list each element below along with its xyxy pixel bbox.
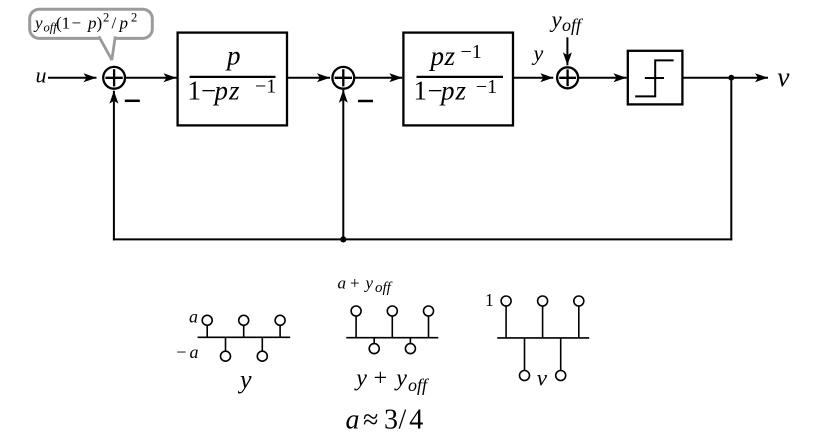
svg-text:u: u — [36, 63, 47, 88]
caption a ~ 3/4 — [346, 404, 424, 435]
up stems — [206, 325, 208, 337]
svg-text:y: y — [532, 41, 544, 66]
summing junction S3 — [557, 67, 578, 88]
svg-text:(1: (1 — [56, 13, 70, 32]
wire block2 to sum3 — [513, 77, 553, 79]
svg-text:p: p — [119, 13, 129, 32]
wire sum2 to block2 — [355, 77, 403, 79]
wire sum1 to block1 — [126, 77, 177, 79]
callout bubble — [30, 9, 153, 60]
minus sign at S1 — [125, 100, 140, 103]
svg-text:a: a — [190, 342, 199, 362]
minus sign at S2 — [358, 100, 373, 103]
svg-text:−: − — [176, 342, 186, 362]
svg-text:z: z — [228, 75, 240, 105]
svg-text:1: 1 — [414, 75, 428, 105]
svg-text:1: 1 — [188, 75, 202, 105]
svg-text:2: 2 — [103, 11, 109, 25]
svg-text:a: a — [338, 274, 347, 293]
svg-text:4: 4 — [409, 404, 423, 435]
svg-text:/: / — [399, 404, 407, 435]
quantizer block — [628, 51, 683, 105]
svg-text:+: + — [374, 365, 388, 391]
up stems — [355, 316, 357, 338]
svg-text:−1: −1 — [461, 41, 482, 63]
axis — [346, 337, 438, 339]
svg-text:2: 2 — [131, 11, 137, 25]
svg-text:−1: −1 — [476, 76, 497, 98]
summing junction S1 — [103, 67, 125, 89]
svg-text:≈: ≈ — [363, 404, 378, 435]
svg-text:y: y — [550, 7, 563, 32]
feedback branch up into S2 — [342, 90, 344, 240]
stem plot 1 (y) — [198, 315, 291, 361]
svg-text:3: 3 — [384, 404, 398, 435]
svg-text:off: off — [408, 375, 430, 395]
wire u to sum1 — [48, 77, 97, 79]
svg-text:off: off — [562, 15, 584, 35]
svg-text:/: / — [112, 13, 117, 32]
svg-text:p: p — [213, 75, 229, 105]
axis — [198, 336, 291, 338]
svg-text:p: p — [439, 75, 455, 105]
svg-text:a: a — [346, 404, 360, 435]
svg-text:z: z — [444, 41, 456, 71]
wire quantizer to v with node dot — [682, 77, 731, 79]
label y + y_off under plot2 — [354, 365, 430, 395]
feedback wire right vertical — [730, 78, 732, 241]
svg-text:−1: −1 — [255, 76, 276, 98]
label a + y_off — [338, 274, 393, 296]
svg-text:): ) — [97, 13, 103, 32]
svg-text:v: v — [537, 365, 548, 390]
down stems — [524, 338, 526, 371]
stem plot 2 (y + y_off) — [346, 306, 438, 354]
up stems — [505, 306, 507, 338]
svg-text:y: y — [394, 365, 407, 391]
svg-text:v: v — [777, 61, 790, 92]
svg-text:y: y — [33, 13, 43, 32]
svg-text:p: p — [429, 41, 445, 71]
svg-text:y: y — [354, 365, 367, 391]
feedback wire bottom horizontal — [113, 238, 732, 240]
stem plot 3 (v) — [497, 296, 589, 381]
callout formula y_off(1-p)^2/p^2 — [33, 11, 137, 35]
wire sum3 to quantizer — [579, 77, 627, 79]
svg-text:p: p — [87, 13, 97, 32]
svg-text:−: − — [72, 13, 82, 32]
block B2 pz^-1/(1-pz^-1) — [403, 33, 513, 126]
svg-text:z: z — [455, 75, 467, 105]
node dot at v branch — [728, 75, 734, 81]
svg-text:a: a — [189, 307, 198, 327]
down stems — [373, 338, 375, 344]
summing junction S2 — [332, 67, 354, 89]
svg-text:p: p — [225, 41, 241, 71]
feedback wire left vertical up into S1 — [113, 91, 115, 241]
svg-text:y: y — [237, 365, 252, 394]
svg-text:y: y — [364, 274, 374, 293]
block B1 p/(1-pz^-1) — [178, 33, 287, 126]
wire block1 to sum2 — [287, 77, 330, 79]
down stems — [225, 337, 227, 351]
node dot feedback branch — [340, 236, 346, 242]
wire y_off down into sum3 — [566, 37, 568, 65]
svg-text:off: off — [375, 280, 393, 296]
svg-text:+: + — [350, 274, 360, 293]
axis — [497, 337, 589, 339]
svg-text:1: 1 — [485, 290, 494, 310]
